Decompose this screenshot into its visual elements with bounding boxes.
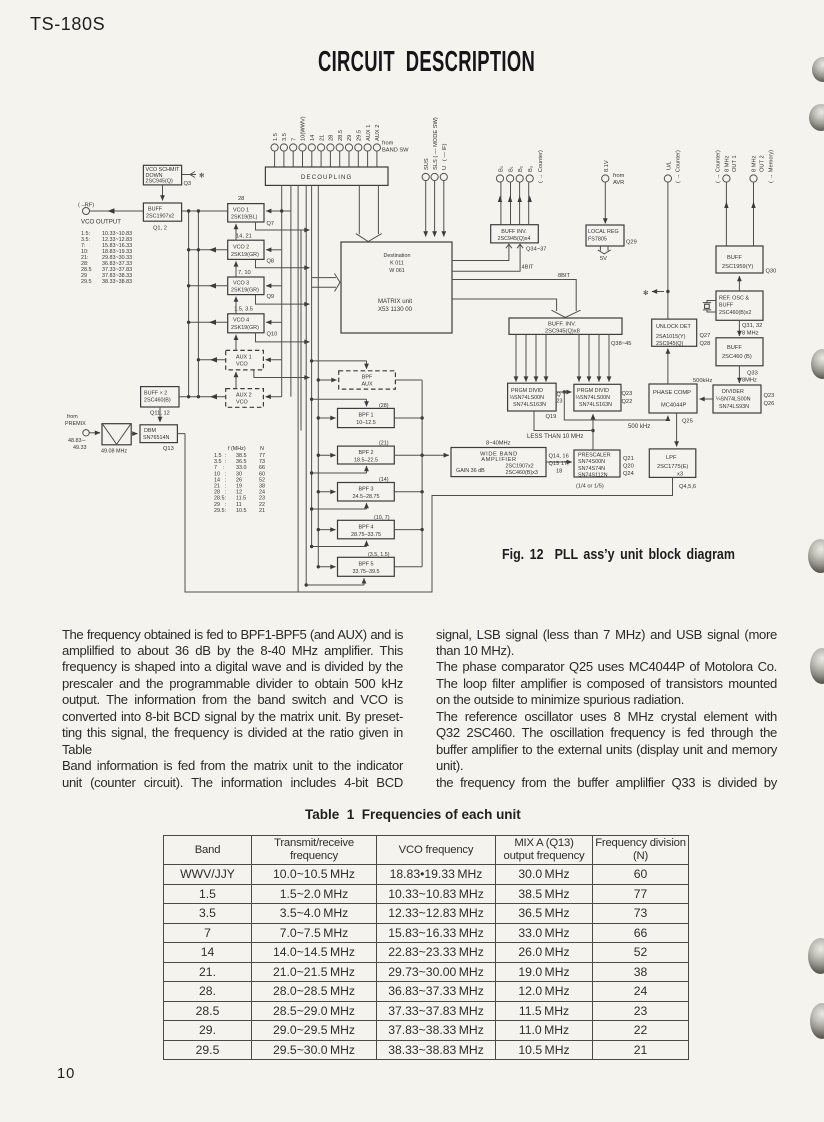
- label BPF3: [353, 477, 389, 500]
- svg-text:(10, 7): (10, 7): [374, 515, 390, 521]
- label MATRIX unit: [378, 253, 413, 313]
- label BUFF x2: [144, 391, 171, 417]
- svg-text:24: 24: [259, 490, 265, 496]
- svg-text:2SC1907x2: 2SC1907x2: [506, 464, 534, 470]
- svg-text:48.83∼: 48.83∼: [68, 438, 86, 444]
- label BUFF Q1,2: [146, 207, 174, 232]
- svg-text:33.0: 33.0: [236, 465, 247, 471]
- wire BPF left inputs: [318, 380, 336, 567]
- node mode-sw input terminals: [422, 173, 447, 236]
- svg-text:Q9: Q9: [267, 294, 275, 300]
- wire BUFF INV x8 outputs to dividers: [516, 334, 609, 381]
- label VCO SCHMIT DOWN: [146, 167, 206, 187]
- svg-text:⅓SN74LS00N: ⅓SN74LS00N: [576, 395, 611, 401]
- svg-text:B₂: B₂: [518, 166, 524, 172]
- wire U/L to UNLOCK DET: [652, 175, 672, 319]
- svg-text:23: 23: [557, 399, 563, 405]
- svg-text:2SK19(GR): 2SK19(GR): [231, 325, 259, 331]
- svg-text:Q30: Q30: [766, 269, 777, 275]
- block BPF 5: [338, 557, 395, 576]
- block AUX 2 VCO: [226, 389, 264, 408]
- wire BPF output collector: [394, 380, 449, 567]
- label PRGM DIVID left: [510, 388, 563, 420]
- svg-text:( → Counter): ( → Counter): [538, 150, 544, 183]
- svg-text:DBM: DBM: [144, 428, 156, 434]
- svg-text:7: 7: [291, 138, 297, 141]
- svg-text:28: 28: [238, 196, 244, 202]
- block BUFF INV 2SC945(Q)x8 Q38-45: [509, 318, 622, 334]
- svg-text:22: 22: [259, 502, 265, 508]
- label B0-B3 counter: [498, 150, 544, 183]
- svg-text:x3: x3: [677, 472, 683, 478]
- block WIDE BAND AMPLIFIER Q14-18: [451, 448, 546, 477]
- svg-text:8MHz: 8MHz: [742, 378, 757, 384]
- svg-text:23: 23: [259, 496, 265, 502]
- svg-text:Q33: Q33: [747, 371, 758, 377]
- svg-text:Q27: Q27: [700, 333, 711, 339]
- svg-text:✻: ✻: [199, 172, 205, 180]
- svg-text:52: 52: [259, 477, 265, 483]
- svg-text:from: from: [382, 141, 394, 147]
- label BPF4: [351, 515, 390, 538]
- svg-text:Q23: Q23: [622, 391, 633, 397]
- svg-text:38: 38: [259, 484, 265, 490]
- svg-text:Q8: Q8: [267, 259, 275, 265]
- svg-text:2SK19(BL): 2SK19(BL): [231, 215, 258, 221]
- label AUX1: [236, 355, 252, 368]
- svg-text:N: N: [260, 446, 264, 452]
- svg-text:2SC460 (B): 2SC460 (B): [722, 354, 752, 360]
- wire matrix top input from decoupling: [356, 185, 382, 241]
- block VCO 4 Q10: [228, 314, 264, 333]
- label BUFF INV x4: [498, 229, 547, 253]
- svg-text:5V: 5V: [600, 256, 607, 262]
- svg-text:26: 26: [236, 477, 242, 483]
- svg-text:( → Counter): ( → Counter): [676, 150, 682, 183]
- circuit block diagram Fig.12: [0, 0, 824, 612]
- block VCO SCHMIT DOWN Q3: [143, 165, 196, 200]
- block PHASE COMP MC4044P Q25: [649, 384, 697, 413]
- svg-text:Q15 17,: Q15 17,: [549, 461, 570, 467]
- svg-text:28.5:: 28.5:: [214, 496, 226, 502]
- svg-text:49.33: 49.33: [73, 445, 87, 451]
- block BUFF INV 2SC945(Q)x4 Q34-37: [491, 225, 539, 243]
- svg-text:8.1V: 8.1V: [604, 160, 610, 172]
- label mixer premix: [65, 414, 127, 455]
- wire BPF4 bottom feed: [312, 541, 367, 547]
- svg-text:500 kHz: 500 kHz: [628, 423, 650, 430]
- svg-text:¼SN74LS00N: ¼SN74LS00N: [716, 397, 751, 403]
- svg-text:U/L: U/L: [666, 161, 672, 170]
- svg-text:BPF 2: BPF 2: [359, 450, 374, 456]
- wire BUFF INV x4 to B terminals: [498, 182, 532, 224]
- node B0-B3 terminals: [496, 175, 533, 182]
- svg-text:38.33~38.83: 38.33~38.83: [102, 279, 132, 285]
- svg-text:2SK19(GR): 2SK19(GR): [231, 252, 259, 258]
- svg-text:BPF: BPF: [362, 375, 373, 381]
- svg-text:Q13: Q13: [163, 446, 174, 452]
- svg-text:2SK19(GR): 2SK19(GR): [231, 288, 259, 294]
- binder bumps on right edge: [812, 57, 824, 82]
- label BUFF INV x8: [545, 322, 631, 348]
- label mode-sw rotated pins: [424, 117, 448, 170]
- label LPF: [657, 455, 696, 490]
- svg-text:VCO: VCO: [236, 362, 248, 368]
- wire WBA to PRESCALER: [546, 461, 572, 463]
- wire left VCO bus verticals: [189, 211, 199, 397]
- svg-text:PRESCALER: PRESCALER: [578, 453, 611, 459]
- svg-text:PRGM DIVID: PRGM DIVID: [511, 388, 543, 394]
- svg-text:VCO: VCO: [236, 400, 248, 406]
- label WBA: [456, 441, 569, 477]
- svg-text:Q29: Q29: [626, 240, 637, 246]
- block BPF 4: [338, 520, 395, 539]
- label 8MHz OUT pins: [715, 150, 774, 183]
- svg-text:⅓SN74LS00N: ⅓SN74LS00N: [510, 395, 545, 401]
- svg-text:11.5: 11.5: [236, 496, 246, 502]
- wire BPF1 top feed: [312, 399, 367, 406]
- svg-text:(14): (14): [379, 477, 389, 483]
- node band-sw input terminals: [271, 144, 381, 151]
- svg-text:SN74S74N: SN74S74N: [578, 466, 605, 472]
- svg-text:2SC945(Q): 2SC945(Q): [146, 179, 173, 185]
- svg-text:SN74S00N: SN74S00N: [578, 459, 605, 465]
- block VCO 2 Q8: [228, 240, 264, 259]
- svg-text:SN74LS93N: SN74LS93N: [719, 404, 749, 410]
- svg-text:Q22: Q22: [622, 399, 633, 405]
- wire 8.1V to LOCAL REG: [602, 175, 609, 224]
- svg-text:BPF 1: BPF 1: [359, 413, 374, 419]
- svg-text:38.5: 38.5: [236, 453, 247, 459]
- svg-text:2SA1015(Y): 2SA1015(Y): [656, 334, 686, 340]
- svg-text:29: 29: [347, 135, 353, 141]
- wire band-sw connector drops: [275, 151, 377, 167]
- svg-text:( → Counter): ( → Counter): [715, 150, 721, 183]
- wire VCO output to BUFF: [90, 208, 228, 213]
- wire less-than-10MHz line: [534, 411, 593, 431]
- svg-text:29 :: 29 :: [214, 502, 226, 508]
- page number: [57, 1066, 75, 1082]
- label VCO OUTPUT and freq list: [78, 203, 132, 286]
- svg-text:Q10: Q10: [267, 332, 278, 338]
- label BPF1: [356, 403, 389, 426]
- svg-text:2SC460(B): 2SC460(B): [144, 398, 171, 404]
- table caption: [305, 807, 521, 822]
- label DBM: [143, 428, 174, 452]
- node from PREMIX terminal: [83, 430, 100, 436]
- svg-text:2SC460(B)x2: 2SC460(B)x2: [719, 310, 751, 316]
- wire VCO2 left feed: [189, 247, 228, 252]
- svg-text:2SC460(B)x3: 2SC460(B)x3: [506, 470, 538, 476]
- crystal X1 8MHz: [703, 301, 716, 313]
- wire PRESCALER to PRGM DIVID: [591, 414, 594, 450]
- svg-text:Q11, 12: Q11, 12: [150, 411, 170, 417]
- svg-text:(21): (21): [379, 441, 389, 447]
- wire VCO3 left feed: [189, 283, 228, 288]
- block DECOUPLING: [265, 167, 388, 185]
- svg-text:U ( — IF): U ( — IF): [442, 143, 448, 170]
- svg-text:60: 60: [259, 471, 265, 477]
- block DBM Q13: [140, 425, 177, 443]
- svg-text:73: 73: [259, 459, 265, 465]
- svg-text:Q14, 16: Q14, 16: [549, 454, 569, 460]
- block BPF 2: [338, 446, 395, 464]
- svg-text:MC4044P: MC4044P: [661, 403, 686, 409]
- svg-text:DECOUPLING: DECOUPLING: [301, 174, 352, 181]
- wire AUX2 left feed from BUFFx2: [179, 394, 226, 399]
- label DIVIDER: [693, 378, 774, 410]
- svg-text:Q: Q: [557, 392, 561, 398]
- svg-text:SN74LS163N: SN74LS163N: [513, 402, 546, 408]
- svg-text:2SC945(Q)x4: 2SC945(Q)x4: [498, 236, 531, 242]
- svg-text:B₀: B₀: [498, 165, 504, 172]
- block LOCAL REG FS7805 Q29: [586, 225, 624, 254]
- wire BPF3 bottom feed: [312, 503, 367, 509]
- label VCO2: [231, 234, 274, 265]
- wire REF OSC to BUFF Q30: [738, 276, 740, 291]
- wire DIVIDER to PHASE COMP 500kHz: [700, 398, 714, 400]
- svg-text:DIVIDER: DIVIDER: [722, 389, 744, 395]
- svg-text:REF, OSC &: REF, OSC &: [719, 296, 749, 302]
- page title: [318, 48, 535, 77]
- svg-text:7, 10: 7, 10: [238, 270, 251, 276]
- svg-text:29.5: 29.5: [81, 279, 92, 285]
- label PRESCALER: [576, 453, 634, 490]
- label VCO4: [231, 307, 277, 338]
- svg-text:f (MHz): f (MHz): [228, 446, 246, 452]
- wire matrix left input: [312, 274, 340, 292]
- svg-text:Q23: Q23: [764, 393, 775, 399]
- block PRGM DIVID right Q22,Q23: [574, 384, 621, 411]
- svg-text:8 MHz: 8 MHz: [742, 331, 759, 337]
- svg-text:AVR: AVR: [613, 180, 624, 186]
- svg-text:77: 77: [259, 453, 265, 459]
- svg-text:VCO 3: VCO 3: [233, 281, 249, 287]
- wire AUX1 left feed: [198, 357, 225, 362]
- svg-text:Q31, 32: Q31, 32: [742, 323, 762, 329]
- svg-text:66: 66: [259, 465, 265, 471]
- svg-text:W 061: W 061: [389, 268, 405, 274]
- svg-text:28: 28: [329, 135, 335, 141]
- svg-text:3.5 :: 3.5 :: [214, 459, 226, 465]
- svg-text:K 011: K 011: [390, 261, 404, 267]
- wire PHASE COMP to LPF: [676, 413, 678, 447]
- label BPF5: [353, 552, 390, 575]
- svg-text:Q19: Q19: [546, 414, 557, 420]
- svg-text:X53 1130 00: X53 1130 00: [378, 306, 413, 313]
- svg-text:OUT 1: OUT 1: [732, 155, 738, 172]
- svg-text:( –RF): ( –RF): [78, 203, 94, 209]
- svg-text:1.5 :: 1.5 :: [214, 453, 226, 459]
- wire VCO right-side band feeds: [266, 211, 291, 397]
- wire VCO4 left feed: [189, 320, 228, 325]
- wire PHASE COMP to UNLOCK DET: [667, 349, 669, 385]
- svg-text:18: 18: [556, 469, 562, 475]
- svg-text:B₃: B₃: [528, 166, 534, 172]
- block VCO 1 Q7: [228, 204, 264, 222]
- svg-text:(1/4 or 1/5): (1/4 or 1/5): [576, 484, 604, 490]
- block PRESCALER Q20,Q21,Q24: [574, 450, 620, 477]
- svg-text:Q7: Q7: [267, 221, 275, 227]
- block REF OSC & BUFF Q31,32: [716, 291, 763, 320]
- svg-text:(3.5, 1.5): (3.5, 1.5): [368, 552, 390, 558]
- svg-text:✻: ✻: [643, 289, 649, 297]
- svg-text:8BIT: 8BIT: [558, 273, 571, 279]
- svg-text:B₁: B₁: [509, 166, 515, 172]
- svg-text:SLS ( — MODE SW): SLS ( — MODE SW): [433, 117, 439, 170]
- svg-text:BUFF × 2: BUFF × 2: [144, 391, 167, 397]
- block AUX 1 VCO: [226, 350, 264, 370]
- svg-text:( → Memory): ( → Memory): [769, 150, 775, 183]
- label band-sw rotated pins: [273, 116, 409, 153]
- svg-text:SN74S112N: SN74S112N: [578, 472, 608, 478]
- label LOCAL REG: [588, 229, 637, 262]
- svg-text:2SC945(Q): 2SC945(Q): [656, 341, 683, 347]
- svg-text:10–12.5: 10–12.5: [356, 420, 376, 426]
- svg-text:Q34~37: Q34~37: [526, 247, 546, 253]
- wire LPF feedback loop: [177, 434, 672, 592]
- wire 8MHz OUT terminals: [723, 175, 757, 246]
- fig caption: [502, 546, 735, 563]
- block MATRIX unit X53-1130-00: [341, 242, 452, 333]
- wire BPF5 bottom feed: [306, 578, 364, 585]
- svg-text:29.5: 29.5: [357, 130, 363, 141]
- svg-text:3.5: 3.5: [282, 133, 288, 141]
- svg-text:BUFF: BUFF: [727, 345, 742, 351]
- svg-text:19: 19: [236, 484, 242, 490]
- label PHASE COMP: [653, 390, 693, 425]
- svg-text:AUX: AUX: [361, 382, 372, 388]
- label UNLOCK DET: [656, 324, 710, 347]
- svg-text:BAND SW: BAND SW: [382, 148, 409, 154]
- node VCO OUTPUT terminal: [83, 208, 90, 215]
- block VCO 3 Q9: [228, 277, 264, 295]
- svg-text:BPF 5: BPF 5: [359, 561, 374, 567]
- wire VCO output collector: [254, 222, 310, 431]
- label 8.1V from AVR: [604, 160, 625, 186]
- svg-text:500kHz: 500kHz: [693, 378, 712, 384]
- svg-text:21: 21: [259, 508, 265, 514]
- wire BUFF Q33 to DIVIDER 8MHz: [738, 366, 740, 383]
- wire PRGM DIVID 500kHz to PHASE COMP: [556, 390, 668, 420]
- svg-text:14: 14: [310, 135, 316, 141]
- block BPF 1: [338, 408, 395, 427]
- svg-text:18.5–22.5: 18.5–22.5: [354, 457, 378, 463]
- mixer symbol 49.08MHz: [102, 424, 138, 445]
- svg-text:LESS THAN 10 MHz: LESS THAN 10 MHz: [527, 433, 583, 440]
- svg-text:11: 11: [236, 502, 242, 508]
- label f(MHz) N mini table: [214, 446, 265, 514]
- block BUFF x2 Q11,12: [141, 387, 179, 422]
- label BUFF Q30: [722, 255, 776, 275]
- block BUFF 2SC1959(Y) Q30: [716, 246, 763, 273]
- svg-text:33.75–39.5: 33.75–39.5: [353, 569, 380, 575]
- svg-text:VCO OUTPUT: VCO OUTPUT: [81, 219, 121, 226]
- svg-text:FS7805: FS7805: [588, 237, 607, 243]
- svg-text:Q28: Q28: [700, 341, 711, 347]
- svg-text:2SC945(Q)x8: 2SC945(Q)x8: [545, 329, 580, 335]
- block BPF AUX: [339, 371, 396, 389]
- svg-text:4BIT: 4BIT: [522, 265, 535, 271]
- svg-text:1.5, 3.5: 1.5, 3.5: [234, 307, 253, 313]
- svg-text:PREMIX: PREMIX: [65, 421, 86, 427]
- svg-text:BUFF. INV.: BUFF. INV.: [548, 322, 576, 328]
- svg-text:OUT 2: OUT 2: [759, 155, 765, 172]
- svg-text:10(WWV): 10(WWV): [301, 116, 307, 141]
- svg-text:PRGM DIVID: PRGM DIVID: [577, 388, 609, 394]
- svg-text:1.5: 1.5: [273, 133, 279, 141]
- svg-text:10 :: 10 :: [214, 471, 226, 477]
- svg-text:BUFF: BUFF: [719, 303, 734, 309]
- svg-text:UNLOCK DET: UNLOCK DET: [656, 324, 691, 330]
- label BUFF Q33: [722, 345, 758, 384]
- svg-text:AUX 2: AUX 2: [375, 125, 381, 141]
- svg-text:28.75–33.75: 28.75–33.75: [351, 532, 381, 538]
- svg-text:7 :: 7 :: [214, 465, 225, 471]
- block LPF 2SC1775(E)x3 Q4,5,6: [649, 449, 696, 478]
- junction dots: [187, 209, 424, 586]
- block BUFF Q1,2: [143, 203, 181, 221]
- label REF OSC: [719, 296, 762, 337]
- label U/L: [666, 150, 681, 183]
- block BUFF 2SC460(B) Q33: [716, 338, 763, 366]
- svg-text:Q3: Q3: [184, 181, 192, 187]
- wire decoupling output bus verticals: [282, 185, 319, 592]
- wire matrix to BUFF INV x4 (4BIT): [452, 244, 523, 271]
- svg-text:BPF 4: BPF 4: [359, 524, 374, 530]
- svg-text:Q4,5,6: Q4,5,6: [679, 484, 696, 490]
- left text column: [62, 627, 403, 792]
- label VCO3: [231, 270, 274, 300]
- svg-text:8 MHz: 8 MHz: [725, 155, 731, 172]
- block UNLOCK DET Q27,Q28: [652, 319, 697, 346]
- frequency table: [163, 835, 689, 1060]
- block DIVIDER Q23,Q26: [713, 385, 761, 413]
- svg-text:from: from: [67, 414, 78, 420]
- svg-text:36.5: 36.5: [236, 459, 247, 465]
- svg-text:14 :: 14 :: [214, 477, 226, 483]
- svg-text:SN76514N: SN76514N: [143, 435, 169, 441]
- svg-text:30: 30: [236, 471, 242, 477]
- svg-text:10.5: 10.5: [236, 508, 247, 514]
- svg-text:PHASE COMP: PHASE COMP: [653, 390, 691, 396]
- page header model name: [30, 14, 105, 35]
- label PRGM DIVID right: [576, 388, 633, 408]
- svg-text:BUFF: BUFF: [727, 255, 742, 261]
- svg-text:12: 12: [236, 490, 242, 496]
- svg-text:AUX 1: AUX 1: [366, 125, 372, 141]
- svg-text:Q20: Q20: [623, 464, 634, 470]
- svg-text:AUX 2: AUX 2: [236, 393, 252, 399]
- svg-text:BPF 3: BPF 3: [359, 487, 374, 493]
- svg-text:2SC1907x2: 2SC1907x2: [146, 214, 174, 220]
- wire BPF AUX top feed: [312, 361, 367, 369]
- svg-text:AMPLIFIER: AMPLIFIER: [481, 457, 516, 463]
- svg-text:LPF: LPF: [666, 455, 677, 461]
- svg-text:Q26: Q26: [764, 401, 775, 407]
- block BPF 3: [338, 483, 395, 502]
- svg-text:SUS: SUS: [424, 158, 430, 170]
- svg-text:(28): (28): [379, 403, 389, 409]
- svg-text:24.5–28.75: 24.5–28.75: [353, 494, 380, 500]
- svg-text:Q25: Q25: [682, 419, 693, 425]
- wire matrix to BUFF INV x8 (8BIT): [452, 280, 581, 318]
- svg-text:VCO 4: VCO 4: [233, 318, 249, 324]
- svg-text:49.08 MHz: 49.08 MHz: [101, 449, 127, 455]
- svg-text:GAIN 36 dB: GAIN 36 dB: [456, 468, 485, 474]
- svg-text:BUFF INV.: BUFF INV.: [501, 229, 527, 235]
- wire REF OSC to BUFF Q33 8MHz: [738, 320, 740, 336]
